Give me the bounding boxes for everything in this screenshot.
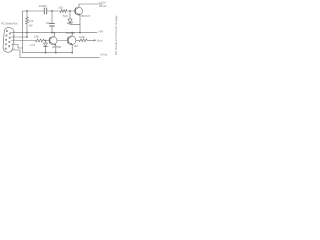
svg-text:+9V: +9V <box>98 29 103 33</box>
svg-text:100uF: 100uF <box>39 4 48 8</box>
svg-text:4k7: 4k7 <box>74 44 79 48</box>
svg-text:Vout: Vout <box>97 39 103 43</box>
svg-text:BC548: BC548 <box>66 31 75 35</box>
svg-text:10u: 10u <box>46 21 51 25</box>
svg-text:1W: 1W <box>29 23 33 27</box>
svg-text:100k: 100k <box>79 35 86 39</box>
svg-text:2k2: 2k2 <box>59 6 64 10</box>
svg-text:PC Serial Port: PC Serial Port <box>1 22 18 26</box>
svg-text:5v6: 5v6 <box>63 14 68 18</box>
svg-text:47k: 47k <box>29 19 34 23</box>
svg-text:BC547: BC547 <box>82 14 91 18</box>
svg-text:1n4: 1n4 <box>30 43 35 47</box>
svg-text:10k: 10k <box>34 34 39 38</box>
svg-text:0V dc: 0V dc <box>100 52 108 56</box>
svg-text:PC Serial Port Power Supply: PC Serial Port Power Supply <box>114 15 118 55</box>
svg-text:BC558: BC558 <box>53 45 62 49</box>
svg-text:25mA: 25mA <box>99 4 106 8</box>
